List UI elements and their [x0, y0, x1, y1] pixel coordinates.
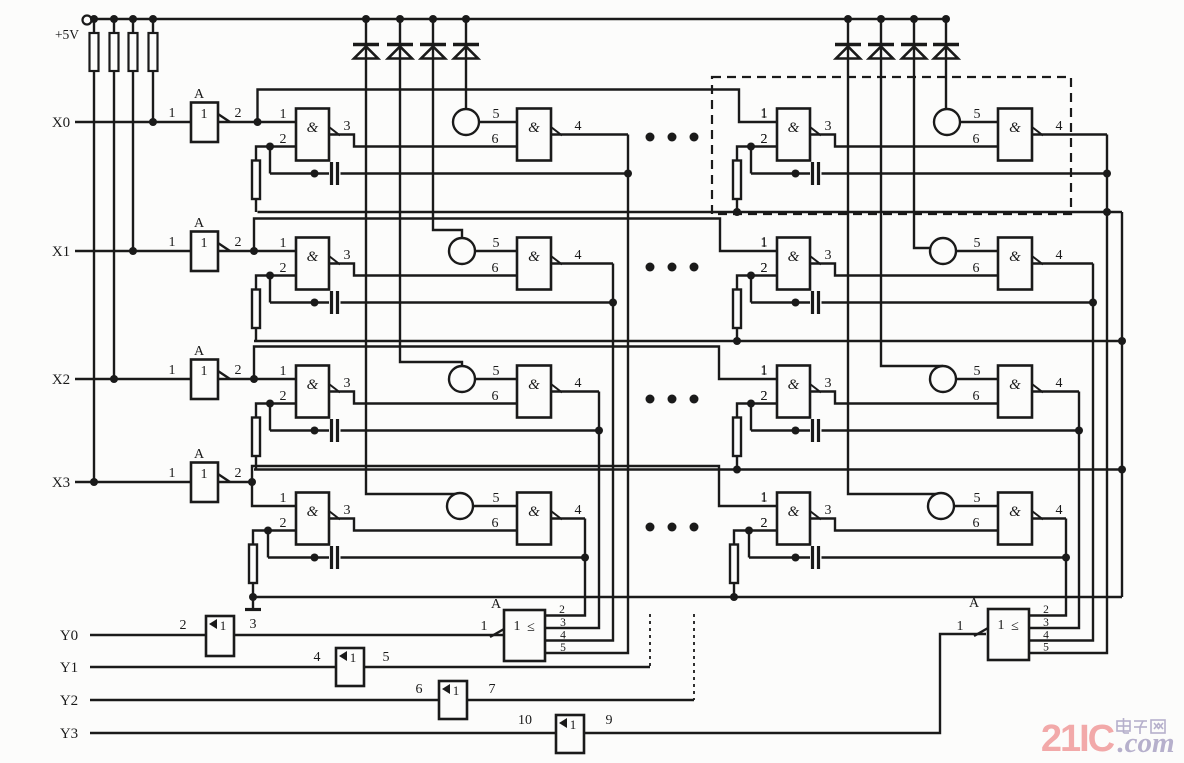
resistor R4 (pull-up to X0)	[152, 19, 154, 33]
wire pin3 to pin6 X0 right	[810, 135, 998, 147]
svg-text:4: 4	[575, 503, 582, 518]
resistor debounce X3 right	[730, 545, 738, 584]
wire column K3 (diode D3 to X1 key)	[433, 19, 462, 238]
junction rail-D5	[844, 15, 852, 23]
output wedge gate X0 right	[810, 127, 821, 136]
svg-text:3: 3	[344, 503, 351, 518]
wire pin2 feed X3 left	[268, 529, 296, 531]
wire Y1 input	[90, 666, 336, 668]
wire pin3 to pin6 X3 left	[329, 519, 517, 531]
wire pin5 X2 right	[956, 378, 998, 380]
wire Y3 to OR2 pin1	[584, 634, 986, 733]
junction feedback-output X1 left	[609, 299, 617, 307]
svg-text:3: 3	[825, 248, 832, 263]
svg-text:4: 4	[1056, 248, 1063, 263]
svg-text:&: &	[307, 249, 319, 265]
wire pin3 to pin6 X2 left	[329, 392, 517, 404]
wire X1 buffer output	[218, 250, 254, 252]
svg-text:1: 1	[169, 106, 176, 121]
wire X1 row rail to right group	[254, 219, 777, 252]
wire pin5 X3 left	[473, 505, 517, 507]
svg-text:6: 6	[492, 389, 499, 404]
resistor debounce X1 right	[733, 290, 741, 329]
wire X0 right output to OR2	[1028, 135, 1107, 654]
svg-text:2: 2	[235, 235, 242, 250]
wire feedback X3 left	[267, 531, 269, 558]
svg-text:&: &	[788, 377, 800, 393]
output wedge gate2 X0 right	[1032, 127, 1043, 136]
junction feedback mid X2 right	[792, 427, 800, 435]
wire X0 row rail to right group	[258, 90, 778, 123]
junction right resistor X0	[733, 208, 741, 216]
wire column K4 (diode D4 to X0 key)	[465, 19, 467, 109]
wire column K5 (diode D5 to X3 right key)	[848, 19, 941, 494]
svg-text:&: &	[788, 504, 800, 520]
wire pin2 to resistor X3 right	[734, 531, 749, 545]
wire X0 to left gate pin1	[258, 121, 297, 123]
output wedge gate2 X1 left	[551, 256, 562, 265]
wire feedback X3 right	[748, 531, 750, 558]
nand gate G2b (X1 left output gate)	[517, 238, 551, 290]
output wedge of A3	[218, 371, 230, 379]
svg-text:1: 1	[761, 106, 768, 121]
wire pin2 feed X3 right	[749, 529, 777, 531]
junction X2 branch	[250, 375, 258, 383]
wire X1 input	[75, 250, 191, 252]
output wedge gate X3 right	[810, 511, 821, 520]
svg-text:1: 1	[201, 107, 208, 122]
svg-text:1: 1	[201, 364, 208, 379]
svg-text:1: 1	[761, 235, 768, 250]
svg-text:6: 6	[973, 516, 980, 531]
wire X1 to left gate pin1	[254, 250, 296, 252]
output wedge of A2	[218, 243, 230, 251]
wire resistor to ground rail X0 left	[255, 199, 257, 212]
junction pin2 X0 right	[747, 143, 755, 151]
wire X2 right output to OR2	[1028, 392, 1079, 629]
wire X2 row rail to right group	[254, 347, 777, 380]
svg-text:1: 1	[280, 107, 287, 122]
resistor debounce X0 left	[252, 161, 260, 200]
resistor debounce X2 right	[733, 418, 741, 457]
svg-text:9: 9	[606, 713, 613, 728]
wire pin4 output X0 right	[1032, 133, 1107, 135]
output wedge gate X1 right	[810, 256, 821, 265]
driver B4 (Y3 buffer)	[556, 715, 584, 753]
svg-text:4: 4	[314, 650, 321, 665]
wire +5V rail	[92, 18, 947, 20]
junction feedback mid X3 right	[792, 554, 800, 562]
inverter A1 (row buffer X0)	[191, 103, 218, 143]
svg-text:Y3: Y3	[60, 726, 78, 742]
junction rail-R4	[149, 15, 157, 23]
svg-text:6: 6	[492, 516, 499, 531]
wire pin3 to pin6 X0 left	[329, 135, 517, 147]
wire capacitor to output node X0 left	[341, 172, 629, 174]
svg-text:1: 1	[280, 236, 287, 251]
inverter A2 (row buffer X1)	[191, 232, 218, 272]
output wedge gate X2 left	[329, 384, 340, 393]
wire key to column X1 right	[942, 237, 944, 239]
output wedge gate2 X3 left	[551, 511, 562, 520]
or gate U2 (1&#8804; right)	[988, 609, 1029, 660]
svg-text:1: 1	[998, 618, 1005, 633]
junction R2-X2	[110, 375, 118, 383]
svg-text:2: 2	[559, 604, 565, 616]
nand gate G2d (X1 right output gate)	[998, 238, 1032, 290]
junction rail-D7	[910, 15, 918, 23]
svg-text:2: 2	[235, 466, 242, 481]
wire Y0 input	[90, 634, 206, 636]
svg-text:5: 5	[493, 107, 500, 122]
nand gate G2c (X1 right input gate)	[777, 238, 810, 290]
diode D6	[868, 43, 894, 47]
key switch S (X1 left)	[449, 238, 475, 264]
junction rail-D3	[429, 15, 437, 23]
junction R4-X0	[149, 118, 157, 126]
diode D3	[420, 43, 446, 47]
wire pin5 X0 left	[479, 121, 517, 123]
svg-text:4: 4	[575, 119, 582, 134]
dotted continuation column Y2	[693, 614, 695, 700]
svg-text:1: 1	[570, 717, 577, 732]
wire capacitor to output node X0 right	[822, 172, 1108, 174]
wire pin2 feed X2 right	[751, 402, 777, 404]
svg-text:1: 1	[220, 618, 227, 633]
svg-text:&: &	[528, 377, 540, 393]
svg-text:1: 1	[169, 466, 176, 481]
wire column K1 (diode D1 to X3 key)	[366, 19, 460, 494]
svg-text:1: 1	[453, 683, 460, 698]
svg-text:4: 4	[1056, 376, 1063, 391]
wire pin2 to resistor X1 left	[256, 276, 270, 290]
ellipsis row X1	[646, 263, 655, 272]
junction feedback-output X2 right	[1075, 427, 1083, 435]
svg-text:1: 1	[761, 363, 768, 378]
wire X3 to left gate pin1	[252, 482, 296, 506]
svg-text:.com: .com	[1117, 727, 1174, 759]
inverter A4 (row buffer X3)	[191, 463, 218, 503]
svg-text:21IC: 21IC	[1041, 718, 1115, 760]
diode D5	[835, 43, 861, 47]
wire ground rail chain	[1121, 212, 1123, 597]
wire X2 left output to OR1	[545, 392, 599, 629]
junction chain X0 output crossing	[1103, 208, 1111, 216]
resistor debounce X1 left	[252, 290, 260, 329]
nand gate G3a (X2 left input gate)	[296, 366, 329, 418]
diode D8	[933, 43, 959, 47]
svg-text:X1: X1	[52, 244, 70, 260]
wire capacitor to output node X3 right	[822, 556, 1067, 558]
wire X1 right output to OR2	[1028, 264, 1093, 641]
junction rail-D2	[396, 15, 404, 23]
wire pin5 X1 right	[956, 250, 998, 252]
svg-text:5: 5	[974, 107, 981, 122]
svg-text:6: 6	[416, 682, 423, 697]
diode D7	[901, 43, 927, 47]
svg-text:&: &	[307, 377, 319, 393]
nand gate G1b (X0 left output gate)	[517, 109, 551, 161]
key switch S (X2 left)	[449, 366, 475, 392]
resistor debounce X3 left	[249, 545, 257, 584]
nand gate G1c (X0 right input gate)	[777, 109, 810, 161]
svg-text:2: 2	[1043, 604, 1049, 616]
ellipsis row X2	[646, 395, 655, 404]
wire column K6 (diode D6 to X2 right key)	[881, 19, 943, 366]
key switch S (X1 right)	[930, 238, 956, 264]
wire key to column X0 left	[465, 108, 467, 110]
svg-text:&: &	[307, 504, 319, 520]
wire pin4 output X1 left	[551, 262, 613, 264]
junction feedback mid X3 left	[311, 554, 319, 562]
wire X2 input	[75, 378, 191, 380]
wire pin4 output X1 right	[1032, 262, 1093, 264]
wire pin3 to pin6 X1 right	[810, 264, 998, 276]
wire capacitor to output node X2 right	[822, 429, 1080, 431]
wire capacitor to output node X1 right	[822, 301, 1094, 303]
svg-text:2: 2	[280, 132, 287, 147]
nand gate G3d (X2 right output gate)	[998, 366, 1032, 418]
capacitor C (X1 left)	[330, 291, 333, 314]
junction R3-X1	[129, 247, 137, 255]
wire resistor to ground rail X3 left	[252, 583, 254, 597]
junction right resistor X2	[733, 466, 741, 474]
svg-text:4: 4	[575, 248, 582, 263]
junction rail-R1	[90, 15, 98, 23]
svg-text:2: 2	[280, 261, 287, 276]
driver B1 (Y0 buffer)	[206, 616, 234, 656]
ellipsis row X3	[646, 523, 655, 532]
svg-text:1: 1	[280, 364, 287, 379]
svg-text:&: &	[1009, 504, 1021, 520]
output wedge gate2 X0 left	[551, 127, 562, 136]
junction X1 branch	[250, 247, 258, 255]
svg-text:A: A	[194, 344, 205, 359]
svg-text:&: &	[528, 120, 540, 136]
wire resistor to ground rail X1 right	[736, 328, 738, 341]
wire Y2 output	[467, 699, 694, 701]
output wedge gate X2 right	[810, 384, 821, 393]
wire pin2 to resistor X1 right	[737, 276, 751, 290]
output wedge gate X0 left	[329, 127, 340, 136]
wire resistor to ground rail X0 right	[736, 199, 738, 212]
junction feedback mid X1 right	[792, 299, 800, 307]
svg-text:&: &	[788, 120, 800, 136]
resistor R3 (pull-up to X1)	[132, 19, 134, 33]
wire pin2 feed X2 left	[270, 402, 296, 404]
svg-text:5: 5	[493, 236, 500, 251]
watermark char wang	[1151, 720, 1165, 733]
inverter A3 (row buffer X2)	[191, 360, 218, 400]
svg-text:5: 5	[974, 236, 981, 251]
svg-text:1: 1	[169, 363, 176, 378]
junction X3 branch	[248, 478, 256, 486]
output wedge gate X1 left	[329, 256, 340, 265]
svg-text:&: &	[528, 249, 540, 265]
wire Y1 output	[364, 666, 650, 668]
or gate U1 (1&#8804; left)	[504, 610, 545, 661]
junction chain X1	[1118, 337, 1126, 345]
svg-text:X2: X2	[52, 372, 70, 388]
svg-text:Y1: Y1	[60, 660, 78, 676]
wire pin5 X2 left	[475, 378, 517, 380]
wire key to column X2 left	[461, 366, 463, 367]
power terminal +5V	[83, 16, 92, 25]
key switch S (X3 right)	[928, 493, 954, 519]
svg-text:3: 3	[825, 503, 832, 518]
wire ground rail X3	[253, 596, 1122, 598]
svg-text:10: 10	[518, 713, 532, 728]
svg-text:&: &	[1009, 377, 1021, 393]
output wedge of A4	[218, 474, 230, 482]
wire feedback X1 right	[750, 276, 752, 303]
wire pin4 output X3 right	[1032, 517, 1066, 519]
wire ground rail X1	[254, 340, 1122, 342]
svg-text:3: 3	[825, 376, 832, 391]
svg-text:2: 2	[761, 261, 768, 276]
svg-text:1: 1	[761, 490, 768, 505]
wire key to column X2 right	[942, 366, 944, 367]
svg-text:6: 6	[492, 132, 499, 147]
junction feedback mid X0 left	[311, 170, 319, 178]
output wedge gate2 X2 right	[1032, 384, 1043, 393]
svg-text:5: 5	[383, 650, 390, 665]
svg-text:A: A	[969, 596, 980, 611]
svg-text:&: &	[528, 504, 540, 520]
svg-text:5: 5	[974, 491, 981, 506]
nand gate G3c (X2 right input gate)	[777, 366, 810, 418]
resistor debounce X2 left	[252, 418, 260, 457]
wire column K8 (diode D8 to X0 right key)	[945, 19, 947, 109]
wire pin4 output X3 left	[551, 517, 585, 519]
junction feedback mid X1 left	[311, 299, 319, 307]
svg-text:3: 3	[344, 248, 351, 263]
wire Y3 output	[583, 732, 585, 734]
wire pin2 feed X0 left	[270, 145, 296, 147]
junction ground	[249, 593, 257, 601]
wire pin2 feed X1 right	[751, 274, 777, 276]
wire X3 buffer output	[218, 481, 252, 483]
junction right resistor X3	[730, 593, 738, 601]
wire pin3 to pin6 X1 left	[329, 264, 517, 276]
wire pin4 output X2 left	[551, 390, 599, 392]
resistor debounce X0 right	[733, 161, 741, 200]
wire feedback X0 right	[750, 147, 752, 174]
junction rail-R3	[129, 15, 137, 23]
svg-text:1: 1	[201, 236, 208, 251]
junction pin2 X0 left	[266, 143, 274, 151]
wire X3 input	[75, 481, 191, 483]
wire Y2 input	[90, 699, 439, 701]
junction rail-D4	[462, 15, 470, 23]
svg-text:1: 1	[957, 619, 964, 634]
svg-text:&: &	[307, 120, 319, 136]
capacitor C (X0 left)	[330, 162, 333, 185]
capacitor C (X3 right)	[811, 546, 814, 569]
nand gate G4c (X3 right input gate)	[777, 493, 810, 545]
svg-text:Y2: Y2	[60, 693, 78, 709]
junction X0 branch	[254, 118, 262, 126]
svg-text:2: 2	[180, 618, 187, 633]
svg-text:2: 2	[761, 132, 768, 147]
svg-text:A: A	[194, 87, 205, 102]
svg-text:X3: X3	[52, 475, 70, 491]
svg-text:A: A	[194, 216, 205, 231]
wire pin2 to resistor X3 left	[253, 531, 268, 545]
wire column K2 (diode D2 to X2 key)	[400, 19, 462, 367]
nand gate G3b (X2 left output gate)	[517, 366, 551, 418]
junction feedback-output X3 right	[1062, 554, 1070, 562]
watermark char dian	[1117, 721, 1130, 731]
capacitor C (X2 left)	[330, 419, 333, 442]
junction chain X2	[1118, 466, 1126, 474]
svg-text:2: 2	[761, 516, 768, 531]
input wedge OR2	[974, 628, 988, 636]
svg-text:+5V: +5V	[55, 27, 79, 42]
output wedge gate X3 left	[329, 511, 340, 520]
svg-text:2: 2	[235, 363, 242, 378]
svg-text:6: 6	[973, 389, 980, 404]
key switch S (X3 left)	[447, 493, 473, 519]
diode D2	[387, 43, 413, 47]
svg-text:&: &	[788, 249, 800, 265]
key switch S (X2 right)	[930, 366, 956, 392]
wire capacitor to output node X2 left	[341, 429, 600, 431]
resistor R2 (pull-up to X2)	[113, 19, 115, 33]
wire key to column X3 left	[459, 492, 461, 494]
nand gate G2a (X1 left input gate)	[296, 238, 329, 290]
wire Y3 input	[90, 732, 556, 734]
junction rail-D1	[362, 15, 370, 23]
capacitor C (X1 right)	[811, 291, 814, 314]
nand gate G1a (X0 left input gate)	[296, 109, 329, 161]
wire X2 buffer output	[218, 378, 254, 380]
wire resistor to ground rail X1 left	[255, 328, 257, 341]
junction pin2 X3 right	[745, 527, 753, 535]
capacitor C (X2 right)	[811, 419, 814, 442]
svg-text:X0: X0	[52, 115, 70, 131]
wire pin2 feed X0 right	[751, 145, 777, 147]
junction feedback-output X1 right	[1089, 299, 1097, 307]
svg-text:3: 3	[825, 119, 832, 134]
output wedge gate2 X2 left	[551, 384, 562, 393]
nand gate G4d (X3 right output gate)	[998, 493, 1032, 545]
svg-text:4: 4	[1056, 503, 1063, 518]
wire X3 right output to OR2	[1028, 519, 1066, 616]
capacitor C (X3 left)	[330, 546, 333, 569]
wire capacitor to output node X1 left	[341, 301, 614, 303]
junction right resistor X1	[733, 337, 741, 345]
svg-text:2: 2	[280, 516, 287, 531]
junction feedback-output X0 left	[624, 170, 632, 178]
svg-text:6: 6	[973, 261, 980, 276]
svg-text:3: 3	[560, 617, 566, 629]
svg-text:3: 3	[344, 119, 351, 134]
wire ground rail X2	[254, 468, 1122, 470]
svg-text:≤: ≤	[1011, 619, 1019, 634]
wire pin4 output X2 right	[1032, 390, 1079, 392]
svg-text:≤: ≤	[527, 620, 535, 635]
driver B3 (Y2 buffer)	[439, 681, 467, 719]
wire key to column X3 right	[940, 492, 942, 494]
input wedge OR1	[490, 629, 504, 637]
wire Y0 output	[234, 634, 504, 636]
svg-text:7: 7	[489, 682, 496, 697]
svg-text:1: 1	[514, 619, 521, 634]
key switch S (X0 left)	[453, 109, 479, 135]
svg-text:1: 1	[201, 467, 208, 482]
wire feedback X2 right	[750, 404, 752, 431]
